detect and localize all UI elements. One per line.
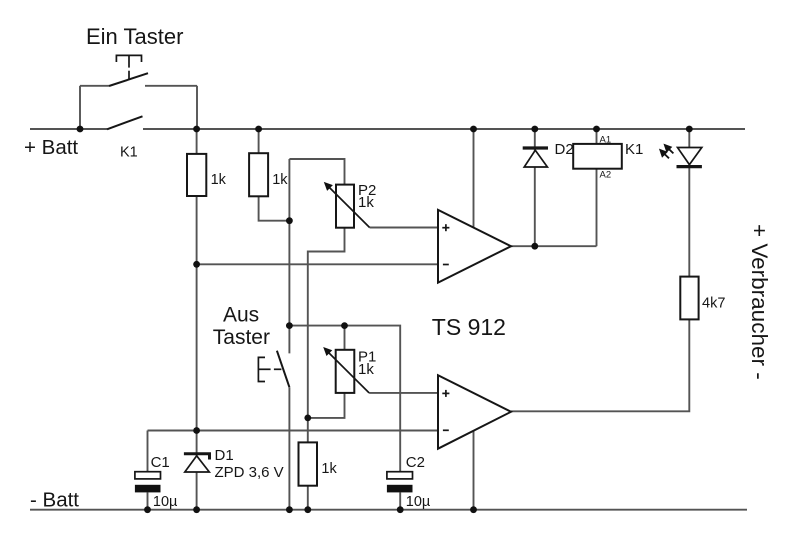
op-amp2 plus sign	[442, 392, 449, 394]
svg-text:K1: K1	[625, 141, 643, 158]
svg-text:1k: 1k	[358, 194, 374, 211]
svg-text:D1: D1	[215, 447, 234, 464]
wire C1 column	[147, 431, 149, 472]
node dot P1 top	[341, 322, 348, 329]
node dot +Batt/EinTaster left	[77, 126, 84, 133]
wire rail to R1k-2	[258, 129, 260, 153]
node dot P1 top line	[286, 322, 293, 329]
svg-text:A2: A2	[600, 170, 612, 181]
LED triangle	[678, 148, 702, 165]
relay coil K1 box	[573, 144, 622, 169]
wire P1 wiper to op-amp2 plus input	[369, 392, 438, 394]
node dot minus ref	[193, 261, 200, 268]
wire Ein Taster branch left vertical	[79, 86, 81, 129]
wire rail to R1k-left	[196, 129, 198, 154]
relay contact K1 blade on top rail	[107, 116, 143, 129]
pushbutton actuator bracket	[116, 55, 141, 62]
P2 wiper shaft	[328, 186, 370, 228]
LED light arrow 2	[664, 153, 669, 158]
P1 wiper shaft	[327, 351, 369, 393]
svg-text:Aus: Aus	[223, 303, 259, 326]
wire Ein Taster branch right vertical	[196, 86, 198, 129]
wire R1k-left down to bottom rail (through D1)	[196, 196, 198, 510]
capacitor C1 bottom plate	[135, 485, 161, 493]
node dot R1k-2 bottom	[286, 217, 293, 224]
node dot P1 bottom	[304, 415, 311, 422]
wire op-amp2 supply to bottom rail	[473, 431, 475, 510]
resistor R 1k second	[249, 153, 268, 196]
node dot bottom rail AusTaster	[286, 506, 293, 513]
node dot rail op-amp1 supply	[470, 126, 477, 133]
svg-text:K1: K1	[120, 144, 138, 160]
potentiometer P2 body	[336, 185, 354, 228]
Aus Taster actuator bracket	[258, 357, 265, 381]
svg-text:1k: 1k	[272, 172, 288, 188]
svg-text:TS 912: TS 912	[432, 314, 506, 340]
pushbutton actuator stem	[128, 55, 130, 67]
op-amp1 minus sign	[443, 264, 449, 266]
op-amp2 minus sign	[443, 429, 449, 431]
node dot rail R1k-left	[193, 126, 200, 133]
svg-text:- Batt: - Batt	[30, 488, 79, 511]
wire R1k-2 bottom	[259, 196, 290, 220]
op-amp U2 triangle	[438, 375, 511, 449]
wire 1k-bottom to rail	[307, 486, 309, 510]
svg-text:4k7: 4k7	[702, 296, 725, 312]
wire relay K1 from rail	[596, 129, 598, 144]
svg-text:A1: A1	[600, 135, 612, 146]
svg-text:C1: C1	[151, 454, 170, 471]
capacitor C2 bottom plate	[387, 485, 413, 493]
wire bottom rail	[30, 509, 747, 511]
node dot bottom rail D1	[193, 506, 200, 513]
node dot op-amp1 output D2	[531, 243, 538, 250]
P2 wiper arrowhead	[324, 182, 333, 191]
wire Ein Taster branch right horizontal	[145, 85, 197, 87]
resistor R 1k left	[187, 154, 206, 196]
diode D2 cathode bar	[523, 146, 548, 149]
wire relay A2 down to output	[596, 169, 598, 247]
node dot rail LED	[686, 126, 693, 133]
wire LED column	[688, 129, 690, 277]
svg-text:D2: D2	[555, 141, 574, 158]
LED cathode bar	[677, 165, 702, 168]
svg-text:ZPD 3,6 V: ZPD 3,6 V	[215, 464, 284, 481]
node dot rail D2	[531, 126, 538, 133]
wire op-amp2 minus input	[148, 430, 439, 432]
potentiometer P1 body	[336, 350, 355, 393]
wire top rail right segment	[143, 128, 745, 130]
svg-text:+ Batt: + Batt	[24, 136, 78, 159]
node dot bottom rail 1k-bottom	[304, 506, 311, 513]
wire P1 top node horizontal to C2	[289, 326, 400, 472]
wire op-amp1 minus input	[197, 263, 438, 265]
wire C1 to rail	[147, 492, 149, 509]
Aus Taster actuator rod	[258, 368, 270, 370]
zener D1 triangle	[185, 456, 210, 472]
svg-text:10µ: 10µ	[406, 494, 431, 510]
svg-text:+ Verbraucher -: + Verbraucher -	[747, 224, 772, 380]
switch Ein Taster blade	[109, 73, 148, 86]
wire P2 bottom	[308, 228, 345, 443]
diode D2 triangle	[524, 150, 547, 167]
resistor 4k7	[680, 277, 698, 320]
wire P2 top	[289, 159, 344, 185]
op-amp U1 triangle	[438, 210, 511, 283]
svg-text:C2: C2	[406, 454, 425, 471]
node dot bottom rail op-amp2 supply	[470, 506, 477, 513]
Aus Taster actuator rod dash	[274, 368, 282, 370]
wire P1 bottom	[308, 393, 345, 418]
switch Aus Taster blade	[277, 351, 290, 388]
svg-text:10µ: 10µ	[153, 494, 178, 510]
node dot zener ref	[193, 427, 200, 434]
wire top rail left segment	[30, 128, 107, 130]
svg-text:Ein Taster: Ein Taster	[86, 24, 183, 49]
wire Aus Taster bottom to rail	[288, 387, 290, 510]
svg-text:Taster: Taster	[213, 326, 270, 349]
resistor 1k bottom	[299, 442, 318, 485]
wire C2 to rail	[399, 492, 401, 509]
node dot rail relay K1	[593, 126, 600, 133]
node dot rail R1k-2	[255, 126, 262, 133]
capacitor C2 top plate	[387, 472, 413, 479]
wire op-amp1 output	[511, 245, 597, 247]
wire op-amp1 supply from rail	[473, 129, 475, 228]
zener D1 cathode bar	[184, 454, 210, 460]
pushbutton actuator stem dash	[128, 71, 130, 80]
LED light arrow 1	[660, 145, 673, 158]
svg-text:1k: 1k	[211, 172, 227, 188]
wire P1 top	[344, 326, 346, 350]
capacitor C1 top plate	[135, 472, 161, 479]
wire diode D2 column	[534, 129, 536, 246]
wire P2 wiper to op-amp1 plus input	[370, 227, 438, 229]
svg-text:1k: 1k	[321, 461, 337, 477]
svg-text:1k: 1k	[358, 361, 374, 378]
node dot bottom rail C2	[397, 506, 404, 513]
node dot bottom rail C1	[144, 506, 151, 513]
P1 wiper arrowhead	[323, 347, 332, 356]
wire node column x289 upper	[288, 159, 290, 353]
op-amp1 plus sign	[442, 224, 449, 430]
wire 4k7 down and to op-amp2 output	[511, 319, 689, 411]
wire Ein Taster branch left horizontal	[80, 85, 109, 87]
